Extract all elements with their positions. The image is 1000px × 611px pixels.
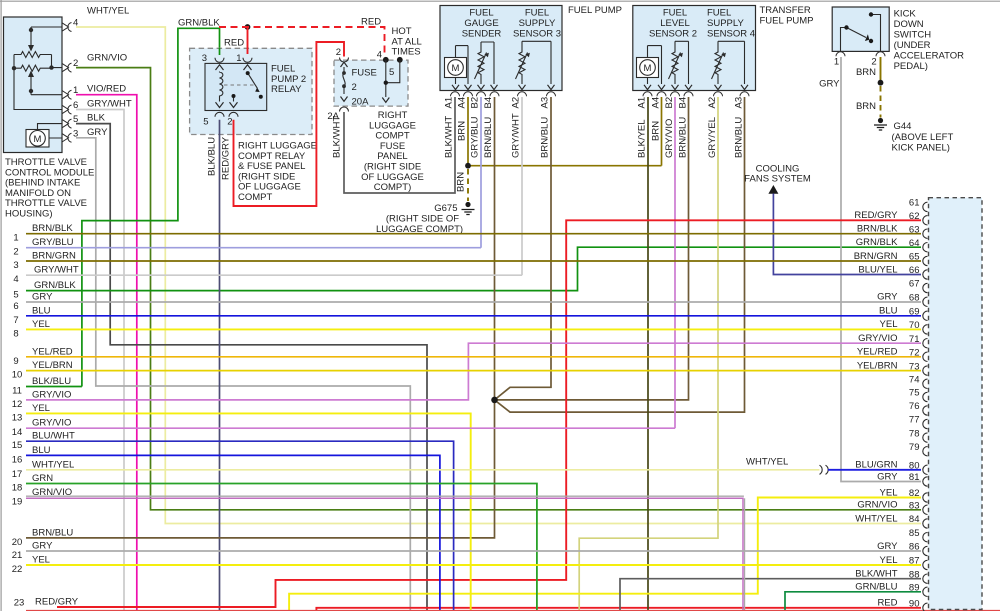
svg-text:76: 76 — [909, 401, 920, 412]
resistor fuel supply sensor 3 — [516, 41, 552, 84]
wire BRN dashed to G675 — [467, 169, 469, 201]
svg-text:BLK/BLU: BLK/BLU — [207, 137, 218, 176]
wire GRY kick down pin1 to pin 81 — [841, 57, 921, 482]
svg-text:1: 1 — [13, 233, 18, 244]
svg-text:GRN/VIO: GRN/VIO — [87, 53, 127, 64]
svg-text:HOUSING): HOUSING) — [5, 209, 53, 220]
relay coil — [220, 72, 223, 102]
kick down pin numbers — [834, 57, 877, 68]
relay linkage dashed — [224, 84, 256, 86]
fuse pin 2A arc — [340, 107, 349, 112]
svg-text:RED: RED — [224, 38, 244, 49]
svg-text:TIMES: TIMES — [392, 47, 421, 58]
svg-text:70: 70 — [909, 320, 920, 331]
fuse panel caption — [361, 110, 424, 193]
svg-text:6: 6 — [13, 301, 18, 312]
label FUEL PUMP 2 RELAY — [271, 64, 306, 96]
svg-text:67: 67 — [909, 279, 920, 290]
svg-text:GRY/VIO: GRY/VIO — [32, 418, 71, 429]
connector pin numbers — [909, 198, 920, 610]
svg-text:GRY/WHT: GRY/WHT — [34, 265, 79, 276]
wire BLK/YEL level sensor A1 off-page — [647, 97, 649, 611]
svg-text:BLU/GRN: BLU/GRN — [855, 460, 897, 471]
svg-text:SWITCH: SWITCH — [894, 30, 932, 41]
svg-text:GRY/BLU: GRY/BLU — [470, 116, 481, 158]
svg-text:5: 5 — [13, 290, 18, 301]
svg-text:1: 1 — [236, 53, 241, 64]
svg-text:4: 4 — [13, 274, 18, 285]
svg-text:61: 61 — [909, 198, 920, 209]
svg-text:68: 68 — [909, 293, 920, 304]
wire WHT/YEL module pin4 to pin84 — [76, 27, 921, 524]
module pin numbers — [73, 18, 78, 140]
fuel pump pin labels rotated — [444, 97, 551, 109]
svg-text:WHT/YEL: WHT/YEL — [87, 6, 129, 17]
svg-text:87: 87 — [909, 556, 920, 567]
wire GRY module pin3 off-page — [76, 138, 410, 611]
svg-text:YEL/RED: YEL/RED — [32, 346, 73, 357]
svg-text:GRN/BLK: GRN/BLK — [856, 237, 898, 248]
svg-text:84: 84 — [909, 514, 920, 525]
fuel pump box — [440, 6, 562, 91]
svg-text:FUEL: FUEL — [663, 8, 687, 19]
motor M fuel level sensor 2 — [637, 46, 666, 90]
svg-text:WHT/YEL: WHT/YEL — [746, 457, 788, 468]
row 18 wire GRN off-page — [26, 484, 537, 611]
svg-text:A4: A4 — [457, 97, 468, 109]
label HOT AT ALL TIMES — [392, 26, 422, 58]
svg-text:85: 85 — [909, 528, 920, 539]
svg-text:90: 90 — [909, 599, 920, 610]
svg-text:FANS SYSTEM: FANS SYSTEM — [744, 174, 811, 185]
svg-text:SENSOR 4: SENSOR 4 — [707, 29, 755, 40]
svg-text:5: 5 — [389, 67, 394, 78]
row 21 wire GRY to pin 86 — [26, 550, 921, 552]
fuse F2 symbol — [343, 67, 345, 94]
svg-text:77: 77 — [909, 415, 920, 426]
connector C1 dashed box — [929, 198, 983, 610]
svg-text:BRN: BRN — [651, 121, 662, 141]
module wire labels — [87, 6, 132, 138]
svg-text:SENDER: SENDER — [462, 29, 502, 40]
svg-text:YEL: YEL — [880, 555, 898, 566]
wire GRN/BLK net: relay pin3, row5, row11 stub, pin 64 — [26, 28, 921, 386]
svg-text:PEDAL): PEDAL) — [894, 61, 928, 72]
row 24 partial wire RED at page bottom edge — [26, 610, 1000, 611]
svg-text:2: 2 — [336, 47, 341, 58]
row 19 wire GRN/VIO off-page (gray over violet) — [26, 495, 744, 497]
row 4 wire GRY/WHT to sensor3 A2 — [26, 274, 522, 276]
svg-text:SUPPLY: SUPPLY — [707, 18, 744, 29]
row 6 wire GRY to pin 68 — [26, 301, 921, 303]
row 22 wire YEL to pin 87 — [26, 564, 921, 566]
svg-text:FUSE: FUSE — [352, 68, 377, 79]
wire RED to relay pin1 — [247, 27, 249, 54]
row 7 wire BLU to pin 69 — [26, 315, 921, 317]
svg-text:13: 13 — [12, 412, 23, 423]
svg-text:BLU/YEL: BLU/YEL — [858, 264, 897, 275]
svg-text:BRN/BLU: BRN/BLU — [678, 117, 689, 158]
svg-text:16: 16 — [12, 454, 23, 465]
ground G675 — [462, 202, 475, 215]
svg-text:72: 72 — [909, 348, 920, 359]
svg-text:A3: A3 — [540, 97, 551, 109]
fuse pin numbers 2, 4, 5, 2A — [327, 47, 394, 122]
row 1 wire BRN/BLK to pin 63 — [26, 233, 921, 235]
svg-text:GRY/YEL: GRY/YEL — [707, 117, 718, 158]
svg-text:COMPT: COMPT — [238, 192, 273, 203]
svg-text:GRY/BLU: GRY/BLU — [32, 237, 74, 248]
wire GRY/VIO level sensor B2 to row 14 — [674, 97, 676, 428]
svg-text:GRN/VIO: GRN/VIO — [32, 487, 72, 498]
node: RED hot junction dot — [245, 24, 251, 30]
node: BRN dot — [878, 80, 884, 86]
svg-text:FUEL: FUEL — [469, 8, 493, 19]
svg-text:BRN: BRN — [457, 121, 468, 141]
svg-text:64: 64 — [909, 238, 920, 249]
svg-text:RED: RED — [361, 17, 381, 28]
caption FUEL LEVEL SENSOR 2 — [649, 8, 697, 40]
svg-text:GRN/BLK: GRN/BLK — [34, 280, 76, 291]
svg-text:BRN: BRN — [456, 172, 467, 192]
svg-text:(RIGHT SIDE OF: (RIGHT SIDE OF — [386, 214, 459, 225]
svg-text:FUEL PUMP: FUEL PUMP — [760, 15, 814, 26]
wire BLU/GRN inline connector to pin 80 — [828, 469, 921, 471]
resistor fuel supply sensor 4 — [712, 41, 745, 84]
svg-text:RED: RED — [877, 598, 897, 609]
wire GRN/VIO module pin2 to pin83 — [76, 68, 921, 510]
left row labels — [32, 223, 79, 607]
kick down switch box — [832, 7, 889, 51]
wire YEL feed to pin 82 — [289, 498, 921, 611]
svg-text:BLK/BLU: BLK/BLU — [32, 376, 71, 387]
svg-text:20: 20 — [12, 537, 23, 548]
svg-text:(ABOVE LEFT: (ABOVE LEFT — [892, 132, 954, 143]
wire BRN/BLU net: sender B4, sensors, row 20 — [26, 97, 745, 538]
svg-text:M: M — [452, 63, 460, 74]
svg-text:75: 75 — [909, 388, 920, 399]
svg-text:M: M — [644, 63, 652, 74]
svg-text:63: 63 — [909, 224, 920, 235]
svg-text:YEL/BRN: YEL/BRN — [857, 360, 898, 371]
row 14 wire GRY/VIO to level sensor B2 — [26, 427, 675, 429]
svg-text:BRN/GRN: BRN/GRN — [854, 251, 898, 262]
relay pin arcs 3,1 top / 5,2 bottom — [215, 58, 252, 117]
svg-text:BRN/BLU: BRN/BLU — [32, 527, 73, 538]
label G44 — [892, 121, 954, 154]
relay switch contact — [234, 73, 258, 101]
svg-text:GRY/VIO: GRY/VIO — [32, 389, 71, 400]
wire BLU/YEL to cooling fans / pin 66 — [773, 194, 921, 275]
svg-text:GAUGE: GAUGE — [464, 18, 498, 29]
svg-text:69: 69 — [909, 307, 920, 318]
relay pin numbers — [202, 53, 242, 128]
svg-text:82: 82 — [909, 488, 920, 499]
svg-text:BLU: BLU — [32, 445, 51, 456]
node: BRN/BLU junction dot — [491, 397, 498, 404]
label TRANSFER FUEL PUMP — [760, 5, 814, 26]
row 3 wire BRN/GRN to pin 65 — [26, 260, 921, 262]
svg-text:15: 15 — [12, 440, 23, 451]
wire BLK module pin5 off-page — [76, 124, 427, 611]
cooling fans arrow — [768, 185, 778, 194]
svg-text:FUEL PUMP: FUEL PUMP — [568, 5, 622, 16]
svg-text:9: 9 — [13, 356, 18, 367]
transfer fuel pump box — [633, 6, 756, 91]
svg-text:LEVEL: LEVEL — [660, 18, 690, 29]
svg-text:BRN: BRN — [856, 101, 876, 112]
svg-text:14: 14 — [12, 427, 23, 438]
left row numbers — [12, 233, 25, 609]
svg-text:81: 81 — [909, 472, 920, 483]
svg-text:79: 79 — [909, 442, 920, 453]
fuse labels FUSE 2 20A — [352, 68, 377, 108]
svg-text:RED/GRY: RED/GRY — [35, 597, 79, 608]
svg-text:11: 11 — [12, 386, 22, 397]
svg-text:A1: A1 — [444, 97, 455, 109]
svg-text:88: 88 — [909, 569, 920, 580]
svg-text:DOWN: DOWN — [894, 19, 924, 30]
svg-text:A4: A4 — [651, 97, 662, 109]
svg-text:FUEL: FUEL — [525, 8, 549, 19]
ground G44 — [874, 118, 887, 130]
svg-text:GRY/VIO: GRY/VIO — [664, 119, 675, 158]
wire RED/GRY pin 62 to row 23 — [57, 220, 921, 607]
svg-text:GRY: GRY — [877, 541, 898, 552]
svg-text:RED/GRY: RED/GRY — [221, 136, 232, 180]
svg-text:YEL/BRN: YEL/BRN — [32, 360, 73, 371]
svg-text:SUPPLY: SUPPLY — [519, 18, 556, 29]
svg-text:74: 74 — [909, 375, 920, 386]
svg-text:BRN/BLU: BRN/BLU — [540, 117, 551, 158]
motor M1 (module internal) — [26, 124, 62, 147]
svg-text:1: 1 — [834, 57, 839, 68]
svg-text:GRY: GRY — [32, 541, 53, 552]
svg-text:YEL: YEL — [32, 403, 50, 414]
wire GRY/WHT sensor3 A2 to row 4 — [521, 97, 523, 275]
svg-text:22: 22 — [12, 564, 23, 575]
svg-text:GRN: GRN — [32, 473, 53, 484]
svg-text:YEL: YEL — [32, 319, 50, 330]
svg-text:YEL: YEL — [32, 555, 50, 566]
wire BLK/WHT feed to pin 88 — [620, 579, 921, 611]
page frame left — [0, 0, 2, 611]
node: feed junction dot — [384, 81, 388, 85]
svg-text:19: 19 — [12, 497, 23, 508]
kick down pin arcs — [836, 52, 885, 57]
svg-text:GRN/VIO: GRN/VIO — [857, 500, 897, 511]
svg-text:BLU: BLU — [879, 306, 898, 317]
feed arrow down — [382, 98, 389, 103]
svg-text:3: 3 — [13, 260, 18, 271]
row 13 wire YEL off-page — [26, 413, 471, 611]
svg-text:M: M — [34, 134, 42, 145]
wire GRY/VIO pin 71 to row 12 — [26, 343, 921, 400]
wire VIO/RED module pin1 off-page — [76, 95, 137, 611]
svg-text:KICK PANEL): KICK PANEL) — [892, 143, 950, 154]
svg-text:WHT/YEL: WHT/YEL — [855, 513, 897, 524]
svg-text:20A: 20A — [352, 97, 370, 108]
svg-text:89: 89 — [909, 583, 920, 594]
svg-text:YEL: YEL — [880, 487, 898, 498]
svg-text:GRN/BLU: GRN/BLU — [855, 582, 897, 593]
relay K1 inner box — [205, 63, 267, 110]
svg-text:GRY: GRY — [32, 292, 53, 303]
relay panel caption — [238, 141, 317, 204]
svg-text:GRY: GRY — [87, 127, 108, 138]
svg-text:21: 21 — [12, 550, 23, 561]
fuse panel dashed box — [334, 60, 408, 106]
svg-text:BLU/WHT: BLU/WHT — [32, 431, 75, 442]
wire RED feed to pin 90 — [316, 608, 921, 611]
row 8 wire YEL to pin 70 — [26, 328, 921, 330]
svg-text:A1: A1 — [637, 97, 648, 109]
fuse panel internal feed wires — [386, 60, 400, 97]
svg-text:73: 73 — [909, 361, 920, 372]
wire BRN dashed to G44 — [880, 86, 882, 118]
svg-text:B2: B2 — [470, 97, 481, 109]
wire GRN/BLU feed to pin 89 — [785, 592, 921, 611]
node: fuse pin4 dot — [383, 57, 389, 63]
svg-text:VIO/RED: VIO/RED — [87, 84, 126, 95]
label G675 location — [376, 214, 463, 236]
svg-text:A2: A2 — [707, 97, 718, 109]
wire GRN/BLK into relay pin 3 (over panel) — [219, 48, 221, 55]
svg-text:WHT/YEL: WHT/YEL — [32, 459, 74, 470]
svg-text:GRY/VIO: GRY/VIO — [858, 333, 897, 344]
svg-text:BLK: BLK — [87, 113, 106, 124]
svg-text:10: 10 — [12, 370, 23, 381]
svg-text:(UNDER: (UNDER — [894, 40, 931, 51]
svg-text:80: 80 — [909, 461, 920, 472]
svg-text:65: 65 — [909, 252, 920, 263]
svg-text:ACCELERATOR: ACCELERATOR — [894, 51, 965, 62]
wire GRY/BLU sender B2 to row 2 — [480, 97, 482, 248]
svg-text:GRY: GRY — [819, 79, 840, 90]
transfer pump pin arcs A1 A4 B2 B4 A2 A3 — [643, 92, 749, 97]
svg-text:KICK: KICK — [894, 9, 917, 20]
svg-text:BLU: BLU — [32, 305, 51, 316]
transfer pump wire labels rotated — [637, 117, 745, 158]
svg-text:GRN/BLK: GRN/BLK — [178, 18, 220, 29]
svg-text:GRY: GRY — [877, 471, 898, 482]
row 16 wire BLU off-page — [26, 455, 440, 611]
relay entry/exit chevron arrows — [216, 65, 252, 108]
svg-text:2: 2 — [13, 247, 18, 258]
row 10 wire YEL/BRN to pin 73 — [26, 370, 921, 372]
wire GRY/YEL sensor4 A2 off-page — [579, 97, 718, 611]
svg-text:YEL: YEL — [880, 319, 898, 330]
connector wire labels — [854, 210, 898, 608]
svg-text:4: 4 — [377, 50, 382, 61]
row 9 wire YEL/RED to pin 72 — [26, 356, 921, 358]
svg-text:B2: B2 — [664, 97, 675, 109]
wire RED/GRY relay pin2 to fuse pin2 — [234, 42, 345, 206]
svg-text:7: 7 — [13, 315, 18, 326]
svg-text:YEL/RED: YEL/RED — [857, 347, 898, 358]
svg-text:RELAY: RELAY — [271, 84, 302, 95]
row 17 wire WHT/YEL to inline connector — [26, 469, 820, 471]
svg-text:23: 23 — [14, 598, 25, 609]
label COOLING FANS SYSTEM — [744, 164, 811, 185]
svg-text:2: 2 — [227, 117, 232, 128]
wiper arrows + junction dots (module internal) — [12, 28, 54, 93]
caption FUEL SUPPLY SENSOR 4 — [707, 8, 755, 40]
wire BRN sender A4 with tie to level sensor A4 — [468, 97, 662, 166]
wire BLK/WHT fuse 2A to fuel gauge sender A1 — [344, 97, 455, 193]
module pin arrows and arcs (pins 4,2,1,6,5,3) — [62, 23, 72, 143]
svg-text:BRN/BLK: BRN/BLK — [32, 223, 73, 234]
svg-text:BRN: BRN — [856, 67, 876, 78]
svg-text:78: 78 — [909, 428, 920, 439]
svg-text:SENSOR 3: SENSOR 3 — [513, 29, 561, 40]
svg-text:COMPT): COMPT) — [374, 182, 411, 193]
svg-text:FUEL: FUEL — [707, 8, 731, 19]
page frame top — [0, 0, 1000, 2]
svg-text:GRY/WHT: GRY/WHT — [87, 99, 132, 110]
fuel pump 2 relay dashed panel — [190, 48, 312, 134]
svg-text:2: 2 — [871, 57, 876, 68]
svg-text:12: 12 — [12, 399, 23, 410]
svg-text:G675: G675 — [434, 203, 457, 214]
motor M fuel gauge sender — [445, 46, 472, 90]
svg-text:3: 3 — [202, 53, 207, 64]
svg-text:71: 71 — [909, 334, 920, 345]
svg-text:B4: B4 — [678, 97, 689, 109]
variable resistor fuel level sensor 2 — [669, 41, 689, 84]
svg-text:BLK/WHT: BLK/WHT — [332, 116, 343, 158]
svg-text:G44: G44 — [894, 121, 912, 132]
svg-text:BLK/WHT: BLK/WHT — [855, 569, 897, 580]
svg-text:BLK/WHT: BLK/WHT — [444, 116, 455, 158]
wire BRN kick down pin2 — [880, 57, 882, 83]
fuse arrows and dots — [341, 62, 348, 101]
svg-text:86: 86 — [909, 542, 920, 553]
svg-text:2: 2 — [352, 82, 357, 93]
kick down switch dots and arrow — [844, 12, 873, 43]
wire BLK/BLU relay pin5 off-page — [219, 120, 221, 611]
variable resistor fuel gauge sender — [475, 42, 495, 84]
svg-text:GRY: GRY — [877, 292, 898, 303]
module caption text — [5, 157, 94, 220]
svg-text:BRN/BLK: BRN/BLK — [857, 224, 898, 235]
svg-text:RED/GRY: RED/GRY — [854, 210, 898, 221]
inline connector arcs — [820, 465, 829, 474]
connector pin arcs 61-90 — [923, 202, 928, 611]
svg-text:GRY/WHT: GRY/WHT — [511, 113, 522, 158]
throttle valve control module box — [4, 17, 63, 153]
caption FUEL GAUGE SENDER — [462, 8, 502, 40]
svg-text:5: 5 — [203, 117, 208, 128]
svg-text:66: 66 — [909, 265, 920, 276]
row 2 wire GRY/BLU to sender B2 — [26, 247, 481, 249]
svg-text:B4: B4 — [483, 97, 494, 109]
svg-text:BLK/YEL: BLK/YEL — [637, 119, 648, 158]
node: fuse pin5 dot — [397, 57, 403, 63]
svg-text:83: 83 — [909, 501, 920, 512]
caption KICK DOWN SWITCH — [894, 9, 965, 73]
wire GRY/WHT module pin6 off-page — [76, 110, 124, 611]
svg-text:BRN/BLU: BRN/BLU — [734, 117, 745, 158]
node: BRN tie dot — [465, 163, 471, 169]
svg-text:A3: A3 — [734, 97, 745, 109]
svg-text:17: 17 — [12, 469, 23, 480]
transfer pump pin labels rotated — [637, 97, 745, 109]
svg-text:A2: A2 — [511, 97, 522, 109]
svg-text:62: 62 — [909, 211, 920, 222]
svg-text:SENSOR 2: SENSOR 2 — [649, 29, 697, 40]
svg-text:BRN/BLU: BRN/BLU — [483, 117, 494, 158]
